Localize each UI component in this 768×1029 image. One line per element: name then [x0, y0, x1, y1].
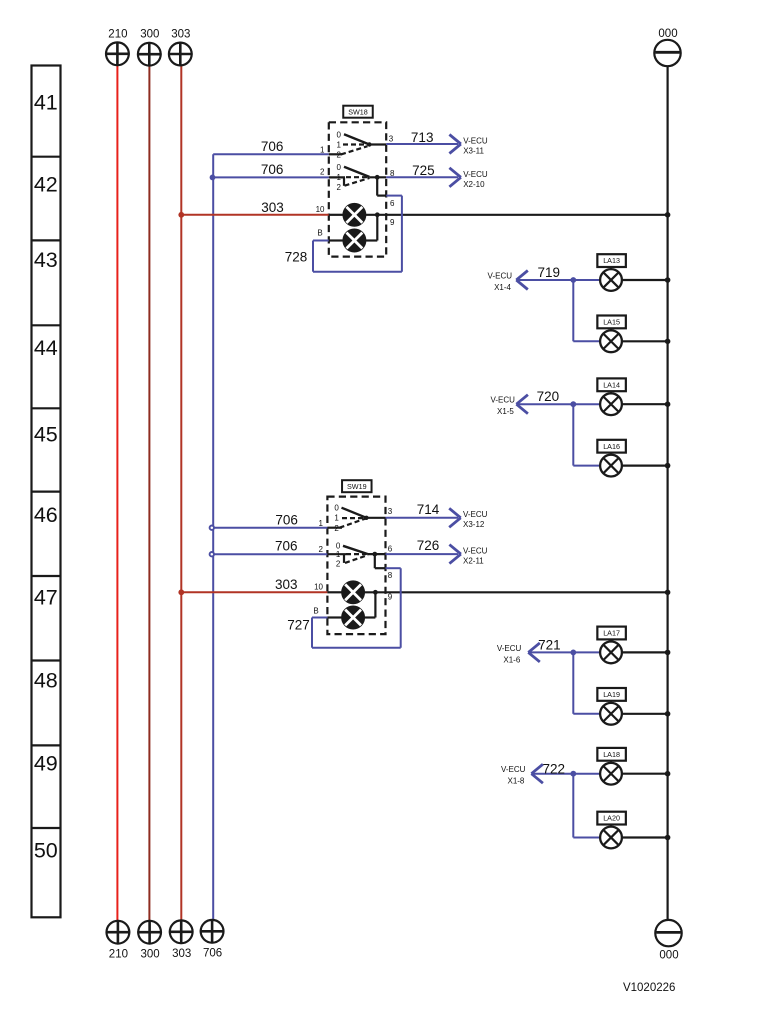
wire from SW19 lamp to 000 bus (black) [364, 591, 668, 593]
svg-text:000: 000 [659, 950, 678, 962]
svg-text:714: 714 [417, 502, 440, 517]
svg-text:1: 1 [336, 550, 341, 559]
junction 000 bus / lamp LA18 [665, 771, 671, 777]
wire 728 loop (blue): pin B to pin 6 [313, 196, 402, 272]
svg-text:2: 2 [334, 524, 339, 533]
junction wire 706 / SW19 pin 1 (ring) [210, 526, 214, 530]
lamp LA19 designator box [597, 688, 626, 701]
SW19 pin 3 internal lead [366, 517, 385, 519]
lamp LA16 [600, 455, 622, 477]
junction wire 303 / SW19 branch [178, 589, 184, 595]
lamp SW18 upper (illumination, filled) [343, 204, 365, 226]
svg-text:8: 8 [388, 571, 393, 580]
wire 706 to SW19 pin 2 (blue) [213, 553, 327, 555]
svg-text:X1-4: X1-4 [494, 283, 511, 292]
SW18 lower switch blade position 0 (solid) [344, 167, 369, 177]
svg-text:LA20: LA20 [603, 814, 620, 823]
svg-text:V-ECU: V-ECU [488, 272, 513, 281]
wire 303 branch to SW18 pin 10 (red) [181, 214, 328, 216]
svg-text:6: 6 [388, 544, 393, 553]
svg-text:45: 45 [34, 423, 58, 447]
svg-text:LA16: LA16 [603, 442, 620, 451]
wire 706 to SW18 pin 1 (blue) [213, 153, 329, 155]
svg-text:1: 1 [334, 514, 339, 523]
junction 000 bus / lamp LA15 [665, 339, 671, 345]
svg-text:V-ECU: V-ECU [497, 644, 522, 653]
wire 727 loop (blue): pin B to pin 8 [312, 568, 401, 648]
lamp LA15 [600, 330, 622, 352]
svg-text:1: 1 [319, 519, 324, 528]
lamp group LA18/LA20 output wire 722 [531, 773, 573, 775]
svg-text:B: B [313, 607, 318, 616]
junction 000 bus / lamp LA19 [665, 711, 671, 717]
SW19 pin 1 internal lead [327, 527, 342, 529]
lamp group LA17/LA19 output wire 721 [528, 651, 573, 653]
wire 721 drop to lamp LA19 (blue) [573, 652, 600, 713]
wire 706 to SW18 pin 2 (blue) [213, 176, 329, 178]
svg-text:LA13: LA13 [603, 256, 620, 265]
switch SW18 dashed enclosure [329, 122, 386, 256]
wire 725 (blue) to V-ECU X2-10 [386, 176, 458, 178]
svg-text:44: 44 [34, 336, 58, 360]
node V-ECU X1-6 label [497, 644, 522, 665]
svg-text:9: 9 [390, 218, 395, 227]
junction SW19 lamp 1 / lamp 2 drop [373, 590, 378, 595]
svg-text:X3-12: X3-12 [463, 520, 485, 529]
SW18 upper switch position 2 (dashed) [341, 146, 368, 154]
lamp LA18 stub [610, 761, 612, 763]
wire 722 drop to lamp LA20 (blue) [573, 774, 600, 838]
junction SW19 pin 6 / lamp feed [372, 552, 377, 557]
wire lamp LA15 to 000 bus (black) [622, 340, 668, 342]
wire 714 arrow to V-ECU [449, 508, 461, 527]
svg-text:722: 722 [543, 762, 566, 777]
lamp LA18 [600, 763, 622, 785]
svg-text:LA14: LA14 [603, 380, 620, 389]
SW19 lower switch contact labels 0 1 2 [336, 542, 341, 569]
switch SW19 designator box [342, 480, 372, 492]
svg-text:719: 719 [538, 265, 561, 280]
SW19 pin 2 internal lead [327, 553, 346, 555]
svg-text:303: 303 [171, 29, 190, 41]
wire 706 vertical (blue) [212, 154, 214, 920]
node V-ECU X3-12 label [463, 510, 488, 529]
svg-text:B: B [317, 228, 322, 237]
svg-text:706: 706 [275, 539, 298, 554]
svg-text:706: 706 [275, 512, 298, 527]
wire lamp LA19 to 000 bus (black) [622, 713, 668, 715]
wire lamp LA13 to 000 bus (black) [622, 279, 668, 281]
svg-text:721: 721 [538, 637, 561, 652]
lamp LA14 [600, 393, 622, 415]
lamp LA13 designator box [597, 254, 626, 267]
SW18 lower switch jog to contact 2 [343, 177, 345, 185]
svg-text:728: 728 [285, 250, 308, 265]
lamp LA16 stub [610, 453, 612, 455]
svg-text:2: 2 [336, 183, 341, 192]
wire 721 arrow to V-ECU [528, 643, 540, 662]
junction wire 303 / SW18 branch [178, 212, 184, 218]
svg-text:LA15: LA15 [603, 318, 620, 327]
svg-text:720: 720 [537, 389, 560, 404]
svg-text:6: 6 [390, 199, 395, 208]
svg-text:2: 2 [336, 560, 341, 569]
node V-ECU X3-11 label [463, 136, 488, 155]
SW18 upper switch contact labels 0 1 2 [336, 131, 341, 160]
SW18 pin 1 internal lead [329, 153, 342, 155]
wire 303 branch to SW19 pin 10 (red) [181, 591, 327, 593]
SW18 upper switch blade position 0 (solid) [344, 134, 369, 144]
svg-text:706: 706 [203, 948, 222, 960]
svg-text:V-ECU: V-ECU [463, 510, 488, 519]
lamp LA19 stub [610, 701, 612, 703]
wire 722 arrow to V-ECU [531, 764, 543, 783]
SW19 lower switch blade position 0 (solid) [343, 546, 368, 554]
terminal 706 bottom (plus) [200, 919, 225, 960]
svg-text:10: 10 [314, 583, 323, 592]
SW19 lower switch jog to contact 2 [343, 554, 345, 563]
svg-text:LA18: LA18 [603, 750, 620, 759]
wire 719 to lamp LA13 (blue) [573, 279, 600, 281]
svg-text:V-ECU: V-ECU [463, 546, 488, 555]
wire 713 arrow to V-ECU [449, 135, 461, 154]
svg-text:1: 1 [320, 146, 325, 155]
svg-text:X2-11: X2-11 [463, 557, 484, 566]
wire 722 to lamp LA18 (blue) [573, 773, 600, 775]
SW18 lamp row 1 internal lead [329, 214, 344, 216]
lamp LA13 [600, 269, 622, 291]
svg-text:X1-6: X1-6 [503, 655, 520, 664]
svg-text:V-ECU: V-ECU [463, 170, 488, 179]
svg-text:300: 300 [141, 949, 160, 961]
junction 000 bus / lamp LA20 [665, 835, 671, 841]
svg-text:V-ECU: V-ECU [501, 765, 526, 774]
wire lamp LA14 to 000 bus (black) [622, 403, 668, 405]
junction wire 719 split [570, 277, 576, 283]
svg-text:0: 0 [336, 163, 341, 172]
svg-text:1: 1 [336, 173, 341, 182]
terminal 303 bottom (plus) [169, 920, 194, 961]
svg-text:210: 210 [109, 949, 128, 961]
svg-text:47: 47 [34, 586, 58, 610]
junction wire 722 split [570, 771, 576, 777]
junction 000 bus / lamp LA14 [665, 401, 671, 407]
wire 713 (blue) to V-ECU X3-11 [386, 143, 458, 145]
wire 714 (blue) to V-ECU X3-12 [386, 517, 459, 519]
row-number ladder 41-50 [32, 66, 61, 918]
lamp LA13 stub [610, 267, 612, 269]
lamp LA17 designator box [597, 627, 626, 640]
terminal 300 top (plus) [137, 29, 162, 67]
svg-text:42: 42 [34, 173, 58, 197]
switch SW18 designator box [343, 106, 373, 118]
SW19 pin 6 internal lead [368, 553, 386, 555]
svg-text:SW18: SW18 [348, 107, 368, 116]
SW19 lamp feed drop (black) [374, 554, 376, 568]
wire 726 arrow to V-ECU [449, 545, 461, 564]
lamp LA17 [600, 642, 622, 664]
SW19 pin B internal lead [327, 616, 342, 618]
SW18 upper switch position 1 (dashed) [343, 143, 368, 145]
wire 719 arrow to V-ECU [516, 271, 528, 290]
terminal 210 top (plus) [105, 28, 130, 66]
SW19 lamp row 1 internal lead [327, 591, 342, 593]
lamp LA18 designator box [597, 748, 626, 761]
junction wire 706 / SW19 pin 2 (ring) [210, 552, 214, 556]
SW19 upper switch position 1 (dashed) [342, 517, 365, 519]
svg-text:V1020226: V1020226 [623, 982, 675, 994]
svg-text:2: 2 [336, 150, 341, 159]
SW18 pin 3 internal lead [369, 143, 386, 145]
svg-text:303: 303 [275, 577, 298, 592]
svg-text:706: 706 [261, 162, 284, 177]
svg-text:2: 2 [320, 168, 325, 177]
lamp LA20 stub [610, 825, 612, 827]
svg-text:SW19: SW19 [347, 482, 367, 491]
SW19 lamp row 2 right lead [364, 616, 376, 618]
svg-text:X1-8: X1-8 [507, 777, 524, 786]
svg-text:43: 43 [34, 248, 58, 272]
SW19 lamp 2 drop wire [374, 592, 376, 617]
lamp LA14 stub [610, 391, 612, 393]
wire 000 vertical bus (black) [666, 66, 668, 919]
lamp SW18 lower (illumination, filled) [343, 229, 365, 251]
wire from SW18 lamp to 000 bus (black) [365, 214, 668, 216]
SW19 upper switch blade position 0 (solid) [342, 508, 367, 518]
SW18 pin 8 internal lead [369, 176, 386, 178]
terminal 303 top (plus) [168, 29, 193, 67]
svg-text:726: 726 [417, 538, 440, 553]
SW19 upper switch common point [364, 516, 368, 520]
wire 303 vertical (red-brown) [180, 66, 182, 921]
SW18 lamp feed to box edge [377, 195, 386, 197]
wire lamp LA20 to 000 bus (black) [622, 836, 668, 838]
svg-text:3: 3 [389, 134, 394, 143]
node V-ECU X2-10 label [463, 170, 488, 189]
wire 721 to lamp LA17 (blue) [573, 651, 600, 653]
SW19 lower switch position 2 (dashed) [345, 555, 368, 563]
svg-text:303: 303 [172, 948, 191, 960]
svg-text:49: 49 [34, 752, 58, 776]
svg-text:X2-10: X2-10 [463, 180, 485, 189]
SW19 upper switch position 2 (dashed) [340, 518, 366, 527]
switch SW19 dashed enclosure [327, 497, 385, 634]
wire lamp LA16 to 000 bus (black) [622, 465, 668, 467]
svg-text:000: 000 [658, 28, 677, 40]
svg-text:50: 50 [34, 839, 58, 863]
svg-text:303: 303 [261, 200, 284, 215]
lamp group LA14/LA16 output wire 720 [516, 403, 573, 405]
lamp group LA13/LA15 output wire 719 [516, 279, 573, 281]
svg-text:46: 46 [34, 503, 58, 527]
svg-text:727: 727 [287, 618, 310, 633]
wire 720 arrow to V-ECU [516, 395, 528, 414]
junction 000 bus / lamp LA16 [665, 463, 671, 469]
lamp SW19 lower (illumination, filled) [342, 606, 364, 628]
lamp LA15 designator box [597, 316, 626, 329]
svg-text:9: 9 [388, 593, 393, 602]
junction 000 bus / lamp LA13 [665, 277, 671, 283]
lamp LA20 [600, 827, 622, 849]
lamp LA17 stub [610, 639, 612, 641]
svg-text:300: 300 [140, 29, 159, 41]
svg-text:1: 1 [336, 140, 341, 149]
SW18 pin 2 internal lead [329, 176, 345, 178]
svg-text:0: 0 [336, 131, 341, 140]
SW18 lower switch contact labels 0 1 2 [336, 163, 341, 192]
wire 720 to lamp LA14 (blue) [573, 403, 600, 405]
SW18 lamp feed drop (black) [376, 177, 378, 195]
wire 706 to SW19 pin 1 (blue) [213, 527, 327, 529]
lamp LA19 [600, 703, 622, 725]
terminal 000 top (minus / ground 000) [654, 28, 680, 66]
svg-text:210: 210 [108, 28, 127, 40]
junction wire 720 split [570, 401, 576, 407]
wire 210 vertical (red) [116, 65, 118, 921]
SW18 lower switch position 1 (dashed) [346, 176, 368, 178]
wire 719 drop to lamp LA15 (blue) [573, 280, 600, 341]
svg-text:706: 706 [261, 139, 284, 154]
SW18 lamp row 2 right lead [365, 239, 377, 241]
SW18 pin B internal lead [329, 239, 344, 241]
svg-text:X3-11: X3-11 [463, 146, 484, 155]
junction SW18 pin 8 / lamp feed [375, 175, 380, 180]
svg-text:0: 0 [334, 504, 339, 513]
svg-text:725: 725 [412, 163, 435, 178]
svg-text:V-ECU: V-ECU [490, 396, 515, 405]
svg-text:LA19: LA19 [603, 690, 620, 699]
SW19 upper switch contact labels 0 1 2 [334, 504, 339, 533]
wire 725 arrow to V-ECU [449, 168, 461, 187]
junction 000 bus / lamp LA17 [665, 650, 671, 656]
node V-ECU X1-8 label [501, 765, 526, 786]
svg-text:V-ECU: V-ECU [463, 136, 488, 145]
lamp LA20 designator box [597, 812, 626, 825]
svg-text:10: 10 [316, 205, 325, 214]
lamp LA16 designator box [597, 440, 626, 453]
junction wire 721 split [570, 650, 576, 656]
wire lamp LA17 to 000 bus (black) [622, 651, 668, 653]
junction 000 bus / SW19 lamp wire [665, 590, 671, 596]
node V-ECU X1-5 label [490, 396, 515, 417]
lamp LA15 stub [610, 328, 612, 330]
svg-text:713: 713 [411, 130, 434, 145]
SW18 upper switch common point [367, 142, 371, 146]
wire 300 vertical (dark red) [148, 66, 150, 921]
node V-ECU X2-11 label [463, 546, 488, 565]
SW18 lamp 2 drop wire [376, 215, 378, 241]
node V-ECU X1-4 label [488, 272, 513, 293]
svg-text:LA17: LA17 [603, 629, 620, 638]
lamp LA14 designator box [597, 378, 626, 391]
wire 720 drop to lamp LA16 (blue) [573, 404, 600, 465]
svg-text:2: 2 [319, 545, 324, 554]
wire lamp LA18 to 000 bus (black) [622, 773, 668, 775]
svg-text:41: 41 [34, 91, 58, 115]
junction wire 706 / pin 2 branch [210, 175, 216, 181]
SW19 lamp feed to box edge [375, 567, 386, 569]
lamp SW19 upper (illumination, filled) [342, 581, 364, 603]
junction 000 bus / SW18 lamp wire [665, 212, 671, 218]
wire 726 (blue) to V-ECU X2-11 [386, 553, 459, 555]
terminal 000 bottom (minus / ground 000) [655, 920, 681, 962]
SW19 lower switch position 1 (dashed) [346, 553, 366, 555]
SW18 lower switch position 2 (dashed) [345, 178, 370, 186]
terminal 300 bottom (plus) [137, 920, 162, 961]
terminal 210 bottom (plus) [106, 920, 131, 961]
svg-text:X1-5: X1-5 [497, 407, 514, 416]
svg-text:3: 3 [388, 507, 393, 516]
junction SW18 lamp 1 / lamp 2 drop [375, 212, 380, 217]
svg-text:48: 48 [34, 669, 58, 693]
